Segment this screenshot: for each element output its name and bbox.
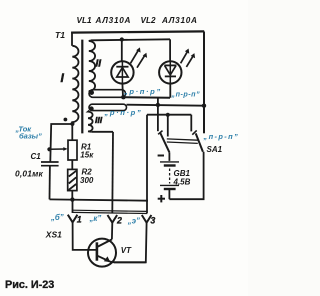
svg-text:3: 3 (150, 216, 155, 226)
svg-text:XS1: XS1 (45, 230, 62, 240)
svg-text:15к: 15к (80, 151, 94, 160)
svg-text:VT: VT (121, 246, 132, 255)
svg-text:Рис. И-23: Рис. И-23 (5, 279, 54, 291)
svg-text:„б”: „б” (50, 213, 64, 222)
svg-text:T1: T1 (55, 30, 65, 40)
svg-text:II: II (96, 58, 102, 69)
svg-text:„п-р-п”: „п-р-п” (203, 132, 240, 141)
svg-text:„п-р-п”: „п-р-п” (171, 89, 201, 98)
svg-text:„э”: „э” (127, 217, 140, 226)
svg-text:„р·п·р”: „р·п·р” (104, 108, 143, 117)
svg-text:2: 2 (116, 216, 122, 226)
svg-text:VL1: VL1 (77, 16, 92, 25)
svg-text:базы”: базы” (19, 132, 42, 141)
svg-text:VL2: VL2 (141, 16, 156, 25)
svg-text:SA1: SA1 (207, 145, 223, 154)
svg-text:R2: R2 (82, 167, 93, 176)
svg-text:0,01мк: 0,01мк (15, 168, 43, 178)
svg-text:1: 1 (77, 215, 82, 225)
svg-text:4,5В: 4,5В (173, 178, 191, 187)
svg-text:„к”: „к” (89, 214, 102, 223)
svg-text:„р·п·р”: „р·п·р” (123, 87, 162, 96)
svg-text:III: III (95, 115, 103, 125)
svg-text:300: 300 (80, 176, 94, 185)
svg-text:АЛ310А: АЛ310А (95, 16, 132, 25)
svg-text:C1: C1 (31, 152, 42, 161)
svg-text:АЛ310А: АЛ310А (161, 16, 198, 25)
